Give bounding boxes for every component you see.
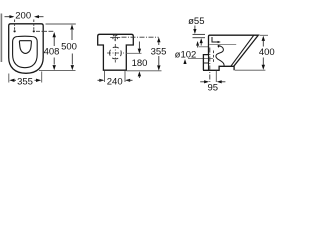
- svg-text:200: 200: [15, 11, 31, 22]
- svg-text:408: 408: [44, 47, 60, 58]
- svg-text:240: 240: [107, 76, 123, 87]
- svg-text:ø55: ø55: [188, 16, 204, 27]
- svg-text:95: 95: [208, 82, 219, 93]
- svg-text:400: 400: [259, 47, 275, 58]
- svg-text:500: 500: [61, 41, 77, 52]
- svg-text:355: 355: [151, 46, 167, 57]
- svg-text:355: 355: [17, 77, 33, 88]
- svg-text:180: 180: [132, 58, 148, 69]
